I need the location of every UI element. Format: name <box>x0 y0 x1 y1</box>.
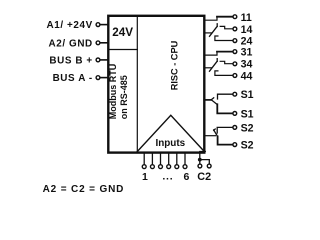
terminal 5 <box>175 165 179 169</box>
svg-text:14: 14 <box>241 24 253 36</box>
wire input 5 <box>176 152 178 164</box>
svg-text:31: 31 <box>241 47 253 59</box>
terminal 3 <box>159 165 163 169</box>
terminal 24 <box>233 39 237 43</box>
svg-text:11: 11 <box>241 12 252 24</box>
terminal 44 <box>233 74 237 78</box>
wire BUS B <box>100 59 108 61</box>
svg-text:RISC - CPU: RISC - CPU <box>169 40 179 90</box>
wire contact 44 <box>215 71 233 76</box>
svg-text:S2: S2 <box>241 122 254 134</box>
wire contact 14 <box>220 26 232 28</box>
wire input 4 <box>168 152 170 164</box>
terminal 2 <box>150 165 154 169</box>
wire terminal S1 bottom <box>217 104 232 113</box>
wire A1 <box>100 24 108 26</box>
wire terminal 11 <box>217 16 233 18</box>
svg-text:S2: S2 <box>241 139 254 151</box>
wire C2 left stub <box>199 160 201 164</box>
node C2 junction <box>198 158 202 162</box>
contact arm <box>211 98 217 105</box>
terminal 1 <box>142 165 146 169</box>
wire arm pivot stub <box>204 67 211 69</box>
terminal C2 right <box>207 164 211 168</box>
svg-text:1: 1 <box>142 171 148 183</box>
wire C2 tap <box>200 152 206 160</box>
wire contact S1 top <box>218 94 233 99</box>
wire terminal S2 bottom <box>218 136 233 144</box>
svg-text:Inputs: Inputs <box>156 138 186 149</box>
wire arm pivot stub <box>204 135 215 137</box>
terminal C2 left <box>198 164 202 168</box>
wire common feed 11 <box>204 17 217 21</box>
input triangle <box>137 115 204 151</box>
wire arm pivot stub <box>204 99 211 101</box>
wire terminal 31 <box>217 51 233 53</box>
svg-text:BUS B +: BUS B + <box>49 56 92 67</box>
svg-text:C2: C2 <box>197 171 211 183</box>
contact arm <box>210 59 218 71</box>
relay contact K2 changeover 31/34/44 <box>204 50 237 78</box>
svg-text:S1: S1 <box>241 108 254 120</box>
terminal A2 <box>96 41 100 45</box>
svg-text:S1: S1 <box>241 89 254 101</box>
terminal BUS A <box>96 76 100 80</box>
wire contact 24 <box>215 36 233 41</box>
terminal 6 <box>183 165 187 169</box>
main block U1 outline <box>108 16 204 153</box>
wire input 1 <box>143 152 145 164</box>
svg-text:A1/ +24V: A1/ +24V <box>47 20 93 31</box>
svg-text:on RS-485: on RS-485 <box>119 75 129 119</box>
wire BUS A <box>100 77 108 79</box>
wire C2 bar <box>200 160 210 164</box>
relay contact K1 changeover 11/14/24 <box>204 15 237 43</box>
wire contact 34 <box>220 61 232 63</box>
internal divider wire <box>136 16 138 153</box>
terminal 14 <box>233 27 237 31</box>
terminal BUS B <box>96 58 100 62</box>
24V section divider wire <box>108 49 137 51</box>
wire arm pivot stub <box>204 32 211 34</box>
svg-text:A2/ GND: A2/ GND <box>49 38 93 49</box>
contact arm <box>210 24 218 37</box>
terminal S1 top <box>233 92 237 96</box>
terminal 4 <box>167 165 171 169</box>
svg-text:24V: 24V <box>112 26 133 39</box>
terminal 11 <box>233 15 237 19</box>
relay contact K4 NO S2/S2 <box>204 126 236 147</box>
terminal S1 bottom <box>233 112 237 116</box>
svg-text:6: 6 <box>183 171 189 183</box>
wire contact S2 top <box>217 127 232 133</box>
contact arm <box>214 129 218 137</box>
terminal S2 top <box>233 126 237 130</box>
wire input 2 <box>151 152 153 164</box>
svg-text:A2 = C2 = GND: A2 = C2 = GND <box>43 184 125 195</box>
wire common feed 31 <box>204 52 217 56</box>
svg-text:BUS A -: BUS A - <box>53 73 93 84</box>
relay contact K3 NO S1/S1 <box>204 92 236 115</box>
terminal 31 <box>233 50 237 54</box>
wire A2 <box>100 42 108 44</box>
svg-text:34: 34 <box>241 59 253 71</box>
svg-text:44: 44 <box>241 70 253 82</box>
input terminals 1..6 <box>142 152 187 168</box>
svg-text:Modbus RTU: Modbus RTU <box>108 64 118 120</box>
svg-text:...: ... <box>162 171 173 183</box>
wire input 6 <box>184 152 186 164</box>
terminal 34 <box>233 62 237 66</box>
terminal S2 bottom <box>233 143 237 147</box>
wire input 3 <box>160 152 162 164</box>
terminal A1 <box>96 23 100 27</box>
